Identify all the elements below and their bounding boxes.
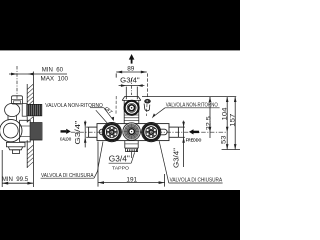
- vertical centerline (valve axis, side view): [16, 66, 18, 99]
- dim 104 / 53 (chained): [226, 97, 229, 150]
- svg-text:TAPPO: TAPPO: [112, 166, 129, 171]
- right stub: [169, 126, 178, 128]
- svg-text:FREDDO: FREDDO: [186, 137, 202, 142]
- left check valve: [102, 123, 121, 142]
- CALDO arrow: [61, 129, 71, 134]
- up arrow (outlet direction): [129, 54, 135, 64]
- svg-text:G3/4": G3/4": [109, 154, 130, 164]
- svg-text:G3/4": G3/4": [172, 148, 181, 168]
- wall section with hatching: [27, 72, 33, 169]
- upper column: [125, 95, 138, 97]
- mid wall fitting (threaded): [30, 123, 42, 140]
- top port side: [12, 96, 23, 104]
- front view body: [122, 96, 150, 123]
- svg-text:32.5: 32.5: [205, 116, 212, 130]
- svg-text:MAX 100: MAX 100: [41, 76, 69, 83]
- svg-text:G3/4": G3/4": [120, 78, 140, 85]
- svg-text:VALVOLA NON-RITORNO: VALVOLA NON-RITORNO: [45, 103, 103, 109]
- svg-text:MIN 60: MIN 60: [42, 67, 64, 74]
- svg-text:MIN 99.5: MIN 99.5: [2, 176, 29, 183]
- svg-text:157: 157: [229, 113, 236, 127]
- svg-text:G3/4": G3/4": [73, 120, 82, 144]
- mounting plate: [89, 124, 179, 141]
- top reference plane line: [142, 96, 236, 98]
- ball body: [5, 103, 20, 116]
- lower body and cap: [125, 141, 138, 152]
- hex nut side: [20, 120, 31, 142]
- center cartridge: [123, 123, 141, 141]
- right check valve: [142, 123, 161, 142]
- dimension MIN 60 / MAX 100: [9, 73, 67, 76]
- horizontal centerline: [62, 131, 227, 133]
- left stub: [89, 126, 97, 128]
- dimension 191: [98, 142, 165, 187]
- svg-text:CALDO: CALDO: [60, 136, 72, 141]
- svg-text:104: 104: [222, 107, 229, 121]
- dimension 89: [116, 71, 147, 116]
- screw ear top right: [145, 99, 151, 103]
- dimension G3/4" left port: [84, 121, 89, 148]
- bottom reference plane line: [222, 149, 240, 151]
- neck: [7, 116, 9, 121]
- dim 157: [234, 97, 237, 150]
- bottom black band: [0, 190, 240, 240]
- FREDDO arrow: [189, 129, 199, 134]
- mid big circle (side of port): [0, 119, 22, 141]
- svg-text:89: 89: [127, 66, 135, 73]
- vertical centerline (front view): [131, 78, 133, 95]
- top wall fitting (threaded): [22, 104, 27, 117]
- dimension G3/4" right port: [178, 121, 185, 167]
- bottom body steps: [6, 142, 25, 146]
- top black band: [0, 0, 240, 50]
- dimension MIN 99.5: [2, 150, 33, 187]
- svg-text:191: 191: [126, 176, 137, 183]
- top port rings: [125, 101, 139, 115]
- dim 32.5: [209, 97, 212, 138]
- svg-text:53: 53: [220, 135, 227, 144]
